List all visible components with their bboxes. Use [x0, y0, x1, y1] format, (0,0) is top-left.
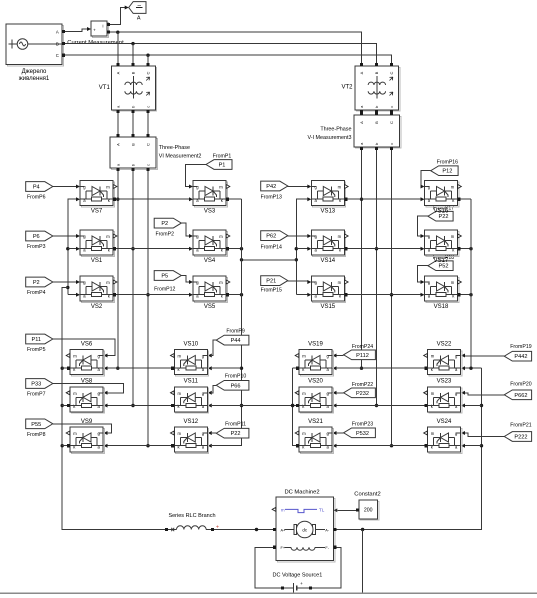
gate wire P5 to VS5 [181, 276, 193, 285]
svg-text:FromP14: FromP14 [261, 245, 282, 251]
svg-text:P2: P2 [161, 221, 168, 227]
three-phase AC source (Джерело живлення1) [6, 24, 65, 66]
svg-text:C: C [146, 71, 151, 74]
wire phase A drop to VT1 [117, 32, 119, 63]
wire VS11 a to VS20 k crossover [208, 404, 296, 408]
svg-text:VS1: VS1 [91, 258, 103, 264]
svg-text:VS3: VS3 [204, 209, 216, 215]
label A [137, 16, 141, 22]
From tag P62 (FromP14) [261, 231, 288, 251]
svg-text:FromP9: FromP9 [226, 329, 245, 335]
wire VS14 k to VS17 a [348, 247, 425, 251]
From tag P232 (FromP22) [344, 382, 376, 398]
svg-text:FromP12: FromP12 [154, 287, 175, 293]
gate wire P44 to VS10 [208, 340, 216, 357]
thyristor block VS22 [424, 341, 462, 376]
bottom boundary line [0, 592, 537, 594]
wire dc link left k-bus to col-C a-bus [240, 258, 296, 261]
wire DC machine A- down to bottom rail [362, 530, 364, 594]
svg-text:c: c [146, 164, 151, 166]
three-phase transformer VT2 [341, 63, 400, 113]
thyristor block VS10 [171, 341, 209, 376]
wire VS9 k to outer bus [62, 445, 67, 447]
gate wire P21 to VS15 [288, 280, 312, 284]
svg-text:Current Measurement: Current Measurement [67, 40, 124, 46]
wire phase1 right vertical [360, 150, 363, 370]
wire phase1 left vertical [116, 171, 119, 370]
svg-text:VS17: VS17 [434, 258, 449, 264]
wire VS16 k to col-D k-bus [461, 198, 471, 200]
thyristor block VS20 [295, 379, 333, 414]
svg-text:P22: P22 [439, 214, 449, 220]
svg-text:VS16: VS16 [434, 209, 449, 215]
label Джерело живлення1 [19, 69, 50, 82]
svg-text:A: A [137, 16, 141, 22]
svg-text:m: m [219, 185, 223, 190]
svg-text:FromP6: FromP6 [27, 195, 46, 201]
svg-text:VS5: VS5 [204, 304, 216, 310]
svg-text:m: m [431, 391, 435, 396]
svg-text:FromP11: FromP11 [225, 421, 246, 427]
svg-text:VS18: VS18 [434, 304, 449, 310]
wire DC machine F+ to battery [255, 547, 281, 588]
svg-text:P62: P62 [266, 234, 276, 240]
svg-text:P12: P12 [442, 169, 452, 175]
gate wire P33 to VS8 [53, 384, 124, 395]
svg-text:B: B [56, 42, 59, 47]
svg-text:VS8: VS8 [81, 379, 93, 385]
svg-text:VT1: VT1 [99, 85, 111, 91]
thyristor block VS18 [425, 276, 462, 310]
gate wire P442 to VS22 [461, 354, 504, 358]
label DC Voltage Source1 [272, 572, 322, 578]
svg-text:m: m [302, 431, 306, 436]
svg-text:FromP7: FromP7 [27, 392, 46, 398]
svg-text:P532: P532 [356, 431, 369, 437]
From tag P12 (FromP16) [431, 159, 458, 175]
gate wire P1 to VS3 [185, 165, 206, 189]
label Constant2 [354, 492, 380, 498]
gate wire P66 to VS11 [208, 385, 216, 395]
svg-text:FromP22: FromP22 [352, 382, 373, 388]
DC voltage source battery symbol [281, 581, 312, 593]
svg-text:VS22: VS22 [437, 341, 452, 347]
wire VT2 secondary to VI measurement3 [376, 112, 378, 114]
wire VT1 secondary to VI measurement2 [147, 113, 149, 134]
svg-text:m: m [431, 354, 435, 359]
wire VS15 k to VS18 a [348, 293, 425, 297]
svg-text:FromP2: FromP2 [156, 231, 175, 237]
From tag P21 (FromP15) [261, 276, 288, 294]
svg-text:Three-Phase: Three-Phase [320, 127, 351, 133]
svg-text:A: A [56, 29, 59, 34]
wire phase3 right vertical [390, 150, 393, 448]
wire VT2 secondary to VI measurement3 [361, 112, 363, 114]
wire VS8 k to outer bus [62, 405, 67, 407]
svg-text:VS23: VS23 [437, 379, 452, 385]
thyristor block VS14 [311, 230, 348, 264]
gate wire P6 to VS1 [53, 234, 80, 238]
thyristor block VS11 [171, 379, 209, 414]
svg-text:FromP1: FromP1 [213, 153, 232, 159]
svg-text:i: i [103, 24, 104, 29]
wire phase2 right vertical [375, 150, 378, 407]
thyristor block VS15 [311, 276, 348, 310]
svg-text:m: m [451, 234, 455, 239]
From tag P22 (FromP17) [428, 205, 454, 221]
svg-text:P6: P6 [33, 234, 40, 240]
thyristor block VS8 [66, 379, 104, 414]
From tag P4 (FromP6) [26, 182, 53, 201]
label Current Measurement [67, 40, 124, 46]
svg-text:V-I Measurement3: V-I Measurement3 [307, 135, 351, 141]
wire VS2 k to VS5 a [116, 293, 193, 297]
svg-text:FromP19: FromP19 [510, 344, 531, 350]
svg-text:m: m [106, 280, 110, 285]
svg-text:m: m [302, 354, 306, 359]
svg-text:B: B [374, 121, 379, 124]
wire col-C a-bus to VS14 a [296, 247, 311, 251]
wire VS7 k to VS3 a [116, 197, 193, 201]
thyristor block VS4 [193, 230, 230, 264]
svg-text:P44: P44 [231, 338, 241, 344]
svg-text:P42: P42 [266, 184, 276, 190]
three-phase VI measurement block Three-Phase VI Measurement2 [110, 134, 201, 171]
wire VS24 a to right outer bus [461, 444, 482, 448]
svg-text:VS24: VS24 [437, 419, 452, 425]
svg-text:C: C [146, 143, 151, 146]
svg-text:FromP20: FromP20 [510, 381, 531, 387]
wire VS18 k to col-D k-bus [461, 293, 473, 296]
wire VS19 a to VS22 k [333, 366, 425, 370]
three-phase transformer VT1 [99, 63, 157, 113]
gate wire P2 to VS4 [181, 223, 193, 238]
svg-text:m: m [178, 354, 182, 359]
wire VS8 a to VS11 k [104, 404, 172, 408]
wire VS20 a to VS23 k [333, 404, 425, 408]
From tag P222 (FromP21) [504, 423, 531, 442]
svg-text:m: m [338, 280, 342, 285]
svg-text:P11: P11 [31, 337, 41, 343]
thyristor block VS16 [425, 181, 462, 215]
wire VT1 secondary to VI measurement2 [132, 113, 134, 134]
From tag P112 (FromP24) [344, 344, 376, 360]
svg-text:200: 200 [364, 508, 373, 514]
svg-text:P52: P52 [439, 264, 449, 270]
thyristor block VS9 [66, 419, 104, 454]
wire VS13 k to VS16 a [348, 197, 425, 201]
svg-text:FromP10: FromP10 [225, 374, 246, 380]
From tag P55 (FromP8) [26, 419, 53, 438]
svg-text:VS7: VS7 [91, 209, 103, 215]
svg-text:P33: P33 [31, 382, 41, 388]
svg-text:VS15: VS15 [320, 304, 335, 310]
gate wire P112 to VS19 [333, 354, 344, 358]
wire RLC branch to DC machine A+ [214, 528, 273, 531]
gate wire P532 to VS21 [333, 431, 344, 435]
svg-text:VS2: VS2 [91, 304, 103, 310]
wire VT2 secondary to VI measurement3 [391, 112, 393, 114]
svg-text:c: c [146, 106, 151, 108]
svg-text:DC Voltage Source1: DC Voltage Source1 [272, 572, 322, 578]
svg-text:P66: P66 [231, 383, 241, 389]
svg-text:c: c [389, 106, 394, 108]
svg-text:C: C [389, 71, 394, 74]
svg-text:FromP16: FromP16 [437, 159, 458, 165]
svg-text:A: A [115, 143, 120, 146]
From tag P5 (FromP12) [154, 271, 181, 293]
gate wire P52 to VS18 [418, 266, 428, 284]
From tag P11 (FromP5) [26, 334, 53, 353]
svg-text:VS20: VS20 [308, 379, 323, 385]
svg-text:VS12: VS12 [183, 419, 198, 425]
wire VS3 k to left k-bus [229, 198, 241, 200]
svg-text:m: m [219, 280, 223, 285]
svg-text:+: + [93, 28, 96, 33]
svg-text:m: m [73, 391, 77, 396]
svg-text:m: m [178, 431, 182, 436]
svg-text:FromP5: FromP5 [27, 347, 46, 353]
gate wire P232 to VS20 [333, 391, 344, 395]
wire phase B top [65, 42, 376, 63]
wire VS22 a to right outer bus [461, 366, 482, 370]
three-phase VI measurement block Three-Phase V-I Measurement3 [307, 112, 400, 150]
thyristor block VS6 [66, 341, 104, 376]
left a-bus vertical [66, 197, 80, 295]
wire phase A top [110, 31, 362, 64]
svg-text:FromP4: FromP4 [27, 290, 46, 296]
gate wire P22 to VS12 [208, 431, 216, 435]
svg-text:Series RLC Branch: Series RLC Branch [168, 513, 215, 519]
svg-text:DC Machine2: DC Machine2 [284, 490, 319, 496]
thyristor block VS23 [424, 379, 462, 414]
From tag P33 (FromP7) [26, 379, 53, 398]
wire VS4 k to left k-bus [229, 247, 243, 250]
From tag P2 (FromP4) [26, 277, 53, 296]
left k-bus vertical [208, 199, 243, 448]
thyristor block VS17 [425, 230, 462, 264]
thyristor block VS13 [311, 181, 348, 215]
svg-text:VS9: VS9 [81, 419, 93, 425]
wire Constant2 to DC machine TL [338, 509, 356, 511]
svg-text:живлення1: живлення1 [19, 76, 50, 82]
thyristor block VS24 [424, 419, 462, 454]
svg-text:P112: P112 [356, 353, 369, 359]
svg-text:P22: P22 [231, 431, 241, 437]
wire source A to current measurement [65, 27, 91, 32]
svg-text:C: C [389, 121, 394, 124]
series RLC branch (inductor) [165, 524, 219, 531]
svg-text:VS10: VS10 [183, 341, 198, 347]
From tag P52 (FromP18) [428, 255, 454, 271]
svg-text:m: m [281, 508, 285, 513]
From tag P44 (FromP9) [216, 329, 249, 345]
svg-text:FromP8: FromP8 [27, 432, 46, 438]
current measurement block [91, 21, 110, 37]
gate wire P55 to VS9 [53, 424, 112, 435]
wire phase2 left vertical [131, 171, 134, 407]
svg-text:P1: P1 [219, 163, 226, 169]
goto tag A [129, 2, 146, 14]
From tag P22 (FromP11) [216, 421, 249, 438]
wire VS5 k to left k-bus [229, 293, 243, 296]
svg-text:+: + [300, 581, 303, 586]
wire phase C top [65, 54, 391, 64]
svg-text:Constant2: Constant2 [354, 492, 380, 498]
svg-text:FromP21: FromP21 [510, 423, 531, 429]
svg-text:m: m [338, 185, 342, 190]
col-D k-bus vertical [470, 199, 472, 368]
svg-text:m: m [178, 391, 182, 396]
wire right k-bus to VS19 k [293, 367, 296, 369]
svg-text:Джерело: Джерело [22, 69, 47, 75]
svg-text:m: m [73, 354, 77, 359]
gate wire P12 to VS16 [421, 171, 431, 189]
svg-text:B: B [131, 71, 136, 74]
right k-bus vertical [291, 368, 296, 446]
From tag P42 (FromP13) [261, 181, 288, 200]
thyristor block VS3 [193, 181, 230, 215]
From tag P66 (FromP10) [216, 374, 249, 390]
label DC Machine2 [284, 490, 319, 496]
thyristor block VS2 [80, 276, 117, 310]
thyristor block VS21 [295, 419, 333, 454]
svg-text:P5: P5 [161, 274, 168, 280]
svg-text:m: m [451, 280, 455, 285]
wire phase3 left vertical [146, 171, 149, 447]
left outer bus to series RLC branch [61, 288, 166, 530]
svg-text:m: m [73, 431, 77, 436]
svg-text:VS11: VS11 [184, 379, 199, 385]
svg-text:A: A [359, 121, 364, 124]
wire phase B drop to VT1 [132, 44, 134, 63]
svg-text:m: m [219, 234, 223, 239]
col-C a-bus vertical [295, 197, 312, 295]
gate wire P22 to VS17 [418, 216, 428, 238]
wire VS17 k to col-D k-bus [461, 247, 473, 250]
svg-text:VS6: VS6 [81, 341, 93, 347]
svg-text:P222: P222 [514, 435, 527, 441]
svg-text:P442: P442 [514, 354, 527, 360]
svg-text:VS4: VS4 [204, 258, 216, 264]
svg-text:Three-Phase: Three-Phase [159, 145, 190, 151]
thyristor block VS1 [80, 230, 117, 264]
wire a-bus to VS2 a [68, 293, 80, 297]
svg-text:VT2: VT2 [341, 85, 353, 91]
wire VS6 a to VS10 k [104, 366, 172, 370]
svg-text:B: B [131, 143, 136, 146]
wire VS21 a to VS24 k [333, 444, 425, 448]
gate wire P222 to VS24 [461, 431, 504, 437]
svg-text:m: m [106, 185, 110, 190]
thyristor block VS5 [193, 276, 230, 310]
thyristor block VS12 [171, 419, 209, 454]
wire VT1 secondary to VI measurement2 [117, 113, 119, 134]
constant block Constant2 (200) [356, 500, 379, 520]
wire current measurement i output to goto A [110, 6, 129, 25]
svg-text:FromP15: FromP15 [261, 288, 282, 294]
svg-text:m: m [106, 234, 110, 239]
gate wire P42 to VS13 [288, 185, 312, 189]
gate wire P662 to VS23 [461, 391, 504, 395]
wire VS6 k to outer bus [62, 367, 67, 369]
wire col-C a-bus to VS15 a [296, 293, 311, 297]
svg-text:VS19: VS19 [308, 341, 323, 347]
wire VS10 a to k-bus [208, 366, 242, 370]
svg-text:FromP13: FromP13 [261, 194, 282, 200]
svg-text:VI Measurement2: VI Measurement2 [159, 154, 202, 160]
svg-text:FromP3: FromP3 [27, 244, 46, 250]
svg-text:P55: P55 [31, 422, 41, 428]
svg-text:P4: P4 [33, 185, 40, 191]
svg-text:TL: TL [319, 508, 325, 513]
From tag P662 (FromP20) [504, 381, 531, 399]
svg-text:m: m [431, 431, 435, 436]
thyristor block VS7 [80, 181, 117, 215]
wire battery to DC machine F- [312, 547, 341, 588]
svg-text:VS21: VS21 [308, 419, 323, 425]
From tag P6 (FromP3) [26, 231, 53, 250]
gate wire P4 to VS7 [53, 185, 80, 189]
From tag P2 (FromP2) [154, 218, 181, 237]
svg-text:FromP23: FromP23 [352, 421, 373, 427]
gate wire P11 to VS6 [53, 339, 115, 358]
gate wire P2 to VS2 [53, 280, 80, 284]
svg-text:C: C [56, 53, 59, 58]
svg-text:FromP24: FromP24 [352, 344, 373, 350]
svg-text:B: B [374, 71, 379, 74]
svg-text:P232: P232 [356, 391, 369, 397]
wire a-bus to VS1 a [68, 247, 80, 251]
svg-text:A: A [115, 71, 120, 74]
gate wire P62 to VS14 [288, 234, 312, 238]
wire VS9 a to VS12 k [104, 444, 172, 448]
svg-text:P662: P662 [514, 393, 527, 399]
wire VS1 k to VS4 a [116, 247, 193, 251]
wire phase C drop to VT1 [147, 55, 149, 63]
svg-text:P21: P21 [266, 279, 276, 285]
svg-text:VS13: VS13 [320, 209, 335, 215]
thyristor block VS19 [295, 341, 333, 376]
wire VS23 a to right outer bus [461, 404, 482, 408]
svg-text:P2: P2 [33, 280, 40, 286]
right outer bus to DC machine A- [337, 368, 484, 531]
svg-text:A: A [359, 71, 364, 74]
svg-text:m: m [451, 185, 455, 190]
svg-text:VS14: VS14 [320, 258, 335, 264]
DC machine block [272, 497, 337, 562]
From tag P442 (FromP19) [504, 344, 531, 361]
From tag P1 (FromP1) [206, 153, 232, 169]
svg-text:m: m [338, 234, 342, 239]
svg-text:dc: dc [302, 527, 308, 532]
svg-text:m: m [302, 391, 306, 396]
label Series RLC Branch [168, 513, 215, 519]
svg-text:c: c [389, 143, 394, 145]
From tag P532 (FromP23) [344, 421, 376, 437]
